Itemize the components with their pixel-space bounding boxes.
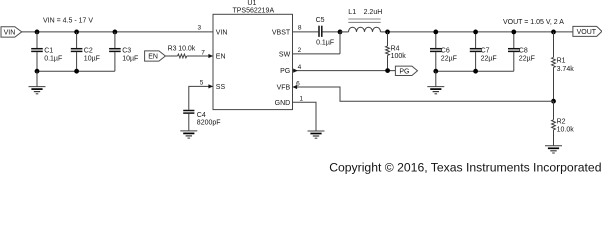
wire GND pin1	[293, 102, 317, 131]
wire SW riser	[339, 32, 341, 54]
svg-text:VOUT: VOUT	[577, 29, 597, 36]
pin arrow EN input	[208, 54, 213, 58]
svg-text:2: 2	[298, 47, 302, 54]
node junction C2 top	[74, 30, 79, 35]
capacitor C2	[71, 32, 83, 71]
svg-text:C1: C1	[44, 48, 53, 55]
svg-text:1: 1	[299, 96, 303, 103]
ground U1 GND	[308, 131, 325, 138]
capacitor C8	[508, 32, 520, 71]
wire output rail	[381, 31, 573, 33]
svg-text:22µF: 22µF	[441, 55, 457, 62]
wire VFB pin6 feedback run	[293, 87, 554, 101]
wire output bottom rail	[436, 70, 514, 72]
ground input	[29, 87, 46, 94]
net label VOUT tag	[573, 26, 602, 36]
svg-text:5: 5	[200, 80, 204, 87]
svg-text:2.2uH: 2.2uH	[364, 9, 383, 16]
svg-text:10.0k: 10.0k	[178, 45, 196, 52]
capacitor C3	[109, 32, 121, 71]
node junction C6 top	[433, 30, 438, 35]
node junction C2 bottom	[74, 69, 79, 74]
svg-text:VBST: VBST	[272, 29, 291, 36]
pin arrow PG output	[293, 69, 298, 73]
svg-text:R4: R4	[391, 46, 400, 53]
net label PG tag	[395, 66, 417, 75]
node junction SW/C5	[338, 30, 343, 35]
svg-text:SS: SS	[216, 84, 226, 91]
svg-text:PG: PG	[280, 68, 290, 75]
resistor R3	[178, 54, 187, 58]
svg-text:C6: C6	[441, 48, 450, 55]
svg-text:GND: GND	[275, 100, 291, 107]
svg-text:VOUT = 1.05 V, 2 A: VOUT = 1.05 V, 2 A	[503, 19, 564, 26]
net label VIN tag	[1, 27, 22, 37]
resistor R1	[552, 32, 556, 101]
wire VBST pin8 to C5	[293, 31, 319, 33]
inductor L1	[340, 19, 381, 32]
wire EN tag to R3	[165, 55, 177, 57]
capacitor C4	[183, 111, 194, 131]
svg-text:7: 7	[201, 49, 205, 56]
wire input bottom rail	[37, 70, 115, 72]
svg-text:SW: SW	[279, 51, 291, 58]
net label EN tag	[145, 51, 166, 61]
svg-text:Copyright © 2016, Texas Instru: Copyright © 2016, Texas Instruments Inco…	[329, 161, 601, 175]
svg-text:22µF: 22µF	[519, 55, 535, 62]
svg-text:VFB: VFB	[277, 85, 291, 92]
resistor R2	[552, 101, 556, 146]
pin arrow SS input	[208, 84, 213, 88]
svg-text:10µF: 10µF	[84, 55, 100, 62]
svg-text:3.74k: 3.74k	[557, 66, 575, 73]
resistor R4	[386, 32, 390, 71]
svg-text:C3: C3	[122, 48, 131, 55]
wire SS to C4	[189, 86, 213, 109]
svg-text:3: 3	[197, 25, 201, 32]
svg-text:8: 8	[298, 25, 302, 32]
wire ground stem input	[36, 71, 38, 86]
svg-text:0.1µF: 0.1µF	[316, 40, 334, 47]
node junction R4/PG	[385, 68, 390, 73]
node junction C6 bottom	[433, 69, 438, 74]
capacitor C5	[319, 26, 340, 37]
wire R3 to U1 pin7	[187, 55, 213, 57]
op-amp U1 TPS562219A body	[213, 14, 293, 109]
svg-text:EN: EN	[148, 54, 158, 61]
ground C4	[180, 131, 197, 138]
svg-text:100k: 100k	[391, 53, 407, 60]
wire SW pin2	[293, 53, 341, 55]
svg-text:10.0k: 10.0k	[557, 126, 575, 133]
svg-text:8200pF: 8200pF	[197, 119, 221, 126]
svg-text:U1: U1	[247, 0, 256, 7]
svg-text:C7: C7	[481, 48, 490, 55]
svg-text:VIN: VIN	[216, 29, 228, 36]
pin arrow VFB input	[293, 85, 298, 89]
svg-text:C5: C5	[316, 17, 325, 24]
svg-text:R2: R2	[557, 119, 566, 126]
node junction C7 top	[473, 30, 478, 35]
svg-text:C2: C2	[84, 48, 93, 55]
svg-text:EN: EN	[216, 54, 226, 61]
wire input rail VIN tag to U1 pin3	[22, 31, 213, 33]
svg-text:R1: R1	[557, 57, 566, 64]
node junction R1 top	[551, 30, 556, 35]
capacitor C7	[470, 32, 482, 71]
node junction L1 out	[385, 30, 390, 35]
node junction C7 bottom	[473, 69, 478, 74]
node junction C1 top	[35, 30, 40, 35]
svg-text:4: 4	[298, 64, 302, 71]
node junction C8 top	[511, 30, 516, 35]
ground output	[427, 87, 444, 94]
svg-text:C4: C4	[197, 112, 206, 119]
svg-text:C8: C8	[519, 48, 528, 55]
svg-text:22µF: 22µF	[481, 55, 497, 62]
wire PG pin4 to PG tag	[293, 70, 396, 72]
svg-text:R3: R3	[168, 45, 177, 52]
node junction C3 top	[113, 30, 118, 35]
svg-text:VIN: VIN	[4, 29, 16, 36]
svg-text:L1: L1	[348, 9, 356, 16]
capacitor C1	[31, 32, 43, 71]
svg-text:PG: PG	[399, 68, 409, 75]
ground R2	[545, 146, 562, 153]
svg-text:10µF: 10µF	[122, 55, 138, 62]
node junction C1 bottom	[35, 69, 40, 74]
svg-text:VIN = 4.5 - 17 V: VIN = 4.5 - 17 V	[43, 17, 93, 24]
svg-text:TPS562219A: TPS562219A	[232, 8, 274, 15]
svg-text:0.1µF: 0.1µF	[44, 55, 62, 62]
wire ground stem output	[435, 71, 437, 86]
capacitor C6	[430, 32, 442, 71]
node junction FB	[551, 99, 556, 104]
